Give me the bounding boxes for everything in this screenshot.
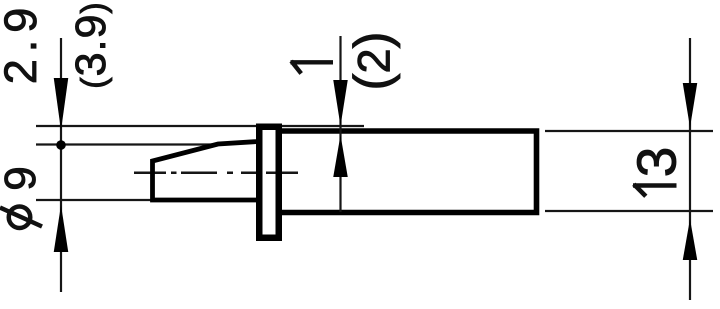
extension line body top right xyxy=(545,130,713,132)
svg-text:(3.9): (3.9) xyxy=(67,1,115,88)
arrow down at body top right xyxy=(683,83,698,128)
arrow up at body bottom right xyxy=(683,219,698,260)
extension line body bottom right xyxy=(545,210,713,212)
svg-text:2.9: 2.9 xyxy=(0,1,46,85)
tip outline (chisel tip) xyxy=(153,142,260,201)
dim line right (13) xyxy=(689,38,691,300)
svg-text:9: 9 xyxy=(0,166,45,190)
diameter symbol circle xyxy=(9,206,31,228)
extension line phi9 top xyxy=(36,143,212,145)
centerline xyxy=(134,172,298,175)
extension line phi9 bottom xyxy=(36,199,156,201)
arrow down at line A middle xyxy=(333,80,348,126)
arrow up at line C xyxy=(54,205,69,252)
body (shaft) xyxy=(280,131,537,213)
flange xyxy=(259,127,279,238)
dim line left (2.9 / phi9) xyxy=(60,38,62,292)
digit 1 of 13 (manual, no foot serif) xyxy=(633,183,677,188)
text 1 xyxy=(291,60,334,64)
extension line top (net of 2.9 / 1 dims) xyxy=(36,125,364,127)
diameter symbol slash xyxy=(0,208,42,227)
svg-text:(2): (2) xyxy=(344,32,401,91)
arrow down at line A xyxy=(54,78,69,131)
dot terminator phi9 xyxy=(56,140,66,150)
dim line middle (1 / (2)) xyxy=(339,36,341,212)
svg-text:3: 3 xyxy=(626,147,688,178)
arrow up at body top xyxy=(333,135,348,177)
